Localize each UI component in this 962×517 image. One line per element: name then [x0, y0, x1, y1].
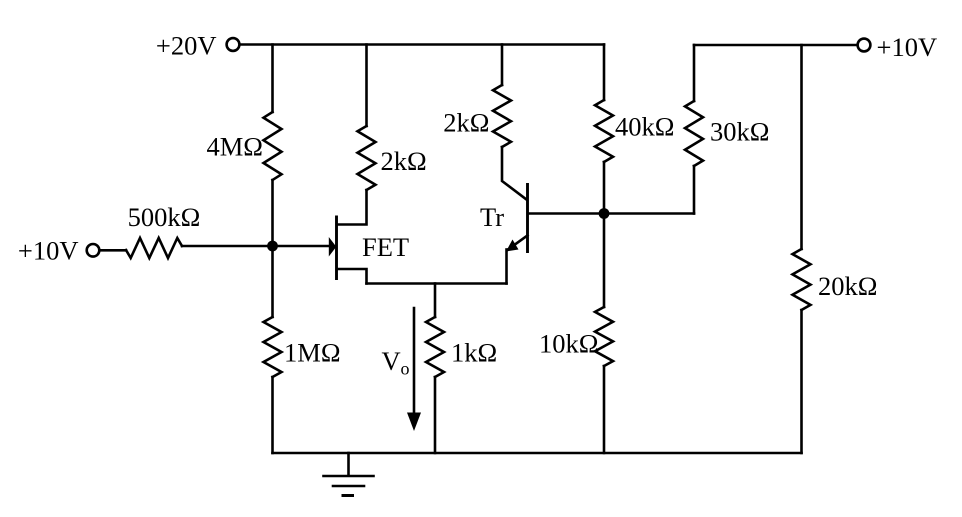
resistor 500k [126, 238, 182, 258]
wire 20k top [800, 45, 803, 249]
wire +20V rail [240, 43, 604, 46]
wire 20k bottom [800, 310, 803, 453]
wire source rail [367, 282, 507, 285]
resistor 40k [595, 100, 613, 162]
wire 40k bottom [603, 162, 606, 214]
wire node to 1M [271, 246, 274, 317]
svg-text:1MΩ: 1MΩ [284, 338, 341, 368]
resistor 1M [264, 317, 282, 377]
wire 4M top [271, 45, 274, 113]
wire 1M bottom [271, 377, 274, 453]
svg-text:+10V: +10V [877, 32, 938, 62]
wire 1k top [434, 284, 437, 318]
resistor 30k [685, 101, 703, 166]
resistor 4M [264, 112, 282, 180]
terminal +20V [227, 38, 240, 51]
svg-text:1kΩ: 1kΩ [451, 338, 497, 368]
wire node to 10k [603, 214, 606, 308]
wire 40k top [603, 45, 606, 101]
node base junction [599, 208, 610, 219]
svg-text:Tr: Tr [480, 202, 504, 232]
resistor 10k [595, 307, 613, 366]
svg-text:+10V: +10V [18, 236, 79, 266]
wire 2k Tr top [501, 45, 504, 86]
wire bottom rail [273, 452, 802, 455]
svg-text:2kΩ: 2kΩ [381, 146, 427, 176]
transistor Tr [526, 185, 529, 252]
svg-text:4MΩ: 4MΩ [206, 132, 263, 162]
wire resistor to gate node [182, 245, 329, 248]
resistor 1k [426, 317, 444, 377]
wire base rail [529, 212, 694, 215]
wire 2k to drain [338, 190, 367, 225]
svg-text:30kΩ: 30kΩ [710, 117, 769, 147]
wire input to resistor [100, 249, 127, 252]
node gate junction [267, 241, 278, 252]
wire +10V rail [694, 44, 858, 47]
wire 4M bottom to node [271, 180, 274, 246]
svg-text:500kΩ: 500kΩ [128, 202, 201, 232]
wire 1k bottom [434, 377, 437, 453]
terminal +10V right [858, 39, 871, 52]
wire 2k top [365, 45, 368, 127]
wire 30k top [693, 45, 696, 101]
svg-text:2kΩ: 2kΩ [443, 108, 489, 138]
transistor FET [335, 217, 338, 279]
resistor 2k drain [358, 126, 376, 190]
ground [347, 453, 350, 476]
wire 30k bottom [693, 166, 696, 214]
resistor 2k collector [493, 85, 511, 147]
svg-text:+20V: +20V [156, 31, 217, 61]
arrow Vo [413, 308, 416, 413]
svg-text:FET: FET [362, 232, 409, 262]
wire collector [502, 147, 527, 200]
svg-text:10kΩ: 10kΩ [539, 329, 598, 359]
svg-text:o: o [401, 359, 410, 379]
svg-text:40kΩ: 40kΩ [615, 112, 674, 142]
terminal +10V input [87, 244, 100, 257]
svg-text:V: V [382, 346, 401, 376]
svg-text:20kΩ: 20kΩ [818, 271, 877, 301]
resistor 20k [793, 249, 811, 310]
wire 10k bottom [603, 366, 606, 453]
